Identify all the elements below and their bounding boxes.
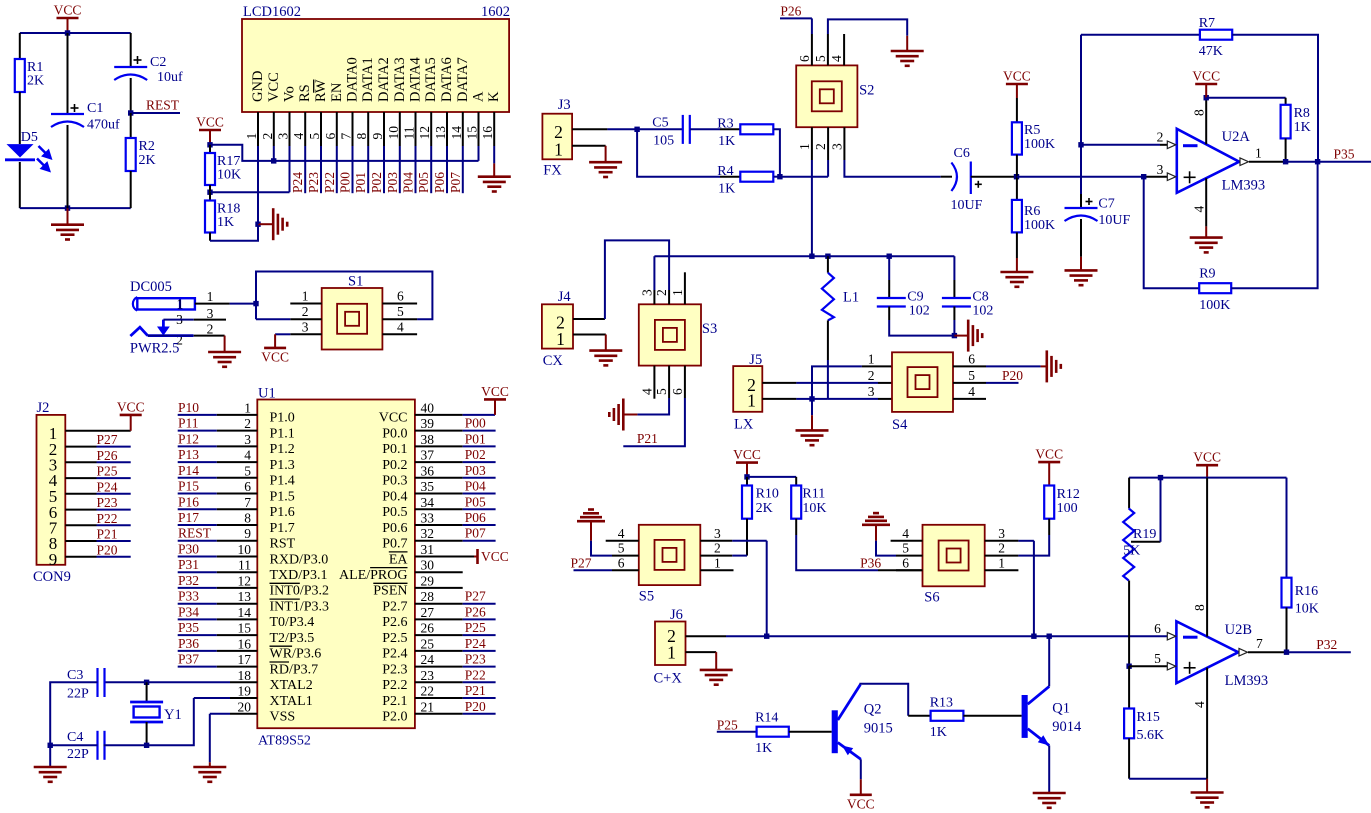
S6 pin 2 wire <box>985 555 1019 557</box>
svg-text:105: 105 <box>653 134 674 149</box>
svg-text:REST: REST <box>146 98 180 113</box>
S3 pin 2 wire <box>668 290 670 304</box>
svg-text:3: 3 <box>868 384 875 399</box>
resistor R8 <box>1285 98 1287 105</box>
svg-text:21: 21 <box>421 699 435 714</box>
svg-text:34: 34 <box>421 495 435 510</box>
U2B pin 8 <box>1206 478 1208 637</box>
ground LCD backlight <box>478 175 511 178</box>
wire main signal to U2A pin3 <box>1017 176 1144 178</box>
svg-text:R19: R19 <box>1133 527 1156 542</box>
U1 pin18 XTAL2 wire <box>230 681 257 683</box>
node C3 C4 left junction <box>48 743 53 748</box>
svg-text:37: 37 <box>421 448 435 463</box>
wire U2B pin5 <box>1129 665 1167 667</box>
wire J3 to R4 <box>637 129 720 176</box>
IC U1 body <box>257 400 415 729</box>
svg-text:VCC: VCC <box>54 3 82 18</box>
node J5 S4 junction <box>809 396 814 401</box>
wire Vo divider to LCD pin3 <box>210 191 290 193</box>
svg-text:6: 6 <box>1154 621 1161 636</box>
svg-text:P0.2: P0.2 <box>382 458 407 473</box>
svg-text:P10: P10 <box>178 400 199 415</box>
svg-text:P2.2: P2.2 <box>382 678 407 693</box>
svg-text:15: 15 <box>238 621 252 636</box>
node VCC R8 rail <box>1204 95 1209 100</box>
ground S6 inverted <box>862 523 890 526</box>
svg-text:INT0/P3.2: INT0/P3.2 <box>270 584 330 599</box>
svg-text:1K: 1K <box>930 725 947 740</box>
power VCC at R17 <box>199 129 221 132</box>
node output feedback <box>1315 159 1320 164</box>
svg-text:P22: P22 <box>322 172 337 193</box>
power rail VCC symbol <box>57 17 79 20</box>
svg-text:5: 5 <box>307 133 322 140</box>
svg-text:3: 3 <box>640 289 655 296</box>
svg-text:8: 8 <box>244 511 251 526</box>
svg-text:8: 8 <box>1192 604 1207 611</box>
node R5 R6 divider <box>1014 174 1019 179</box>
svg-text:2: 2 <box>998 541 1005 556</box>
svg-text:1: 1 <box>556 329 565 349</box>
U1 overlines <box>270 582 300 584</box>
svg-text:P16: P16 <box>178 494 199 509</box>
svg-text:RW: RW <box>313 79 329 102</box>
S2 pin 2 wire <box>827 127 829 160</box>
connector J4 body <box>542 304 573 348</box>
svg-text:470uf: 470uf <box>87 118 120 133</box>
svg-text:8: 8 <box>1192 109 1207 116</box>
svg-text:1K: 1K <box>755 741 772 756</box>
svg-text:47K: 47K <box>1199 44 1223 59</box>
svg-text:5: 5 <box>968 368 975 383</box>
wire R6 top <box>1016 177 1018 200</box>
LCD pin3 wire to Vo divider <box>289 146 291 192</box>
svg-text:1: 1 <box>554 140 563 160</box>
U1 pin 31 EA VCC <box>415 556 474 558</box>
wire junction to S4 pin3 <box>812 398 828 400</box>
wire Q1 collector to bus <box>1048 636 1050 686</box>
svg-text:S5: S5 <box>639 589 654 605</box>
wire R3 right elbow <box>774 129 780 176</box>
svg-text:P07: P07 <box>465 526 486 541</box>
svg-text:P2.3: P2.3 <box>382 662 407 677</box>
svg-text:1: 1 <box>868 352 875 367</box>
svg-text:P20: P20 <box>1002 368 1023 383</box>
power VCC at U1 pin40 <box>484 398 506 401</box>
capacitor C1 <box>51 113 84 115</box>
node Y1 bottom <box>144 743 149 748</box>
wire node to S2 pin2 <box>780 176 828 178</box>
svg-text:R15: R15 <box>1137 710 1160 725</box>
power VCC at J2 pin1 <box>130 415 132 431</box>
svg-text:6: 6 <box>618 555 625 570</box>
wire R18 bottom loop <box>209 233 211 241</box>
LCD pin 8 stub <box>367 112 369 146</box>
svg-text:4: 4 <box>968 384 975 399</box>
svg-text:P30: P30 <box>178 542 199 557</box>
svg-text:LCD1602: LCD1602 <box>243 4 301 20</box>
svg-text:VCC: VCC <box>196 115 224 130</box>
node R8 output <box>1283 159 1288 164</box>
node Y1 top <box>144 680 149 685</box>
svg-text:1: 1 <box>714 555 721 570</box>
svg-text:19: 19 <box>238 684 252 699</box>
svg-text:P0.4: P0.4 <box>382 489 407 504</box>
svg-text:P34: P34 <box>178 604 199 619</box>
connector J2 body <box>37 415 66 565</box>
svg-text:2K: 2K <box>756 501 773 516</box>
svg-text:C1: C1 <box>87 101 103 116</box>
wire R5 bottom <box>1016 155 1018 177</box>
LCD pin 4 wire <box>304 146 306 193</box>
svg-text:R7: R7 <box>1199 16 1215 31</box>
svg-text:J6: J6 <box>670 607 683 623</box>
S5 pin 2 wire <box>700 555 732 557</box>
LCD pin 13 wire <box>446 146 448 193</box>
svg-text:3: 3 <box>302 319 309 334</box>
svg-text:C6: C6 <box>954 146 970 161</box>
svg-text:Vo: Vo <box>282 86 298 102</box>
svg-text:P20: P20 <box>465 699 486 714</box>
svg-text:6: 6 <box>323 133 338 140</box>
power VCC at R10 <box>746 463 748 477</box>
svg-text:1: 1 <box>670 289 685 296</box>
node DC005 junction <box>253 301 258 306</box>
svg-text:4: 4 <box>829 55 844 62</box>
svg-text:P1.7: P1.7 <box>270 521 295 536</box>
svg-text:VCC: VCC <box>1192 69 1220 84</box>
wire R14 to Q2 base <box>789 731 832 733</box>
svg-text:U2B: U2B <box>1225 622 1252 638</box>
switch S5 body <box>639 525 701 585</box>
svg-text:18: 18 <box>238 668 252 683</box>
svg-text:1K: 1K <box>217 215 234 230</box>
svg-text:L1: L1 <box>843 290 859 306</box>
LCD pin 6 stub <box>336 112 338 146</box>
svg-text:PSEN: PSEN <box>373 584 407 599</box>
svg-text:P04: P04 <box>401 172 416 193</box>
svg-text:10uf: 10uf <box>157 70 183 85</box>
svg-text:100K: 100K <box>1024 218 1055 233</box>
svg-text:S3: S3 <box>702 321 717 337</box>
svg-text:C8: C8 <box>972 290 988 305</box>
svg-text:12: 12 <box>417 126 432 140</box>
ground J6 pin1 <box>715 652 717 670</box>
J5 pin 1 wire <box>762 398 796 400</box>
power VCC at U2B <box>1206 465 1208 477</box>
svg-text:4: 4 <box>640 388 655 395</box>
svg-text:R4: R4 <box>717 164 733 179</box>
ground U1 VSS <box>209 762 211 767</box>
LCD pin 5 stub <box>320 112 322 146</box>
node bus L1 <box>825 254 830 259</box>
svg-text:25: 25 <box>421 636 435 651</box>
svg-text:VCC: VCC <box>266 72 282 102</box>
svg-text:1: 1 <box>747 391 756 411</box>
svg-text:C5: C5 <box>652 116 668 131</box>
U1 pin20 VSS wire <box>230 713 257 715</box>
wire C6 to divider <box>971 176 1017 178</box>
svg-text:P37: P37 <box>178 652 199 667</box>
svg-text:4: 4 <box>244 448 251 463</box>
svg-text:2: 2 <box>868 368 875 383</box>
svg-text:2: 2 <box>714 541 721 556</box>
LCD pin 12 wire <box>430 146 432 193</box>
svg-text:P03: P03 <box>385 172 400 193</box>
power VCC at U2A <box>1195 83 1217 86</box>
LED D5 <box>7 144 34 157</box>
S3 pin 3 wire <box>653 290 655 304</box>
svg-text:LX: LX <box>734 417 754 433</box>
svg-text:6: 6 <box>797 55 812 62</box>
S6 pin 1 stub <box>985 569 1019 571</box>
svg-text:31: 31 <box>421 542 435 557</box>
LCD pin 4 stub <box>304 112 306 146</box>
wire bottom rail <box>20 207 131 209</box>
svg-text:7: 7 <box>244 495 251 510</box>
node J3 split <box>634 127 639 132</box>
svg-text:VCC: VCC <box>481 384 509 399</box>
svg-text:R9: R9 <box>1199 267 1215 282</box>
svg-text:P1.4: P1.4 <box>270 474 295 489</box>
resistor R14 <box>757 727 789 737</box>
svg-text:DC005: DC005 <box>130 279 172 295</box>
LCD pin 14 wire <box>462 146 464 193</box>
svg-text:10K: 10K <box>1295 602 1319 617</box>
svg-text:9014: 9014 <box>1052 719 1082 735</box>
resistor R19 rheostat <box>1128 478 1130 509</box>
capacitor C7 <box>1065 207 1098 209</box>
svg-text:REST: REST <box>178 526 212 541</box>
svg-text:C2: C2 <box>150 55 166 70</box>
svg-text:P26: P26 <box>465 604 486 619</box>
node LCD pin2 tap <box>271 158 276 163</box>
svg-text:7: 7 <box>339 133 354 140</box>
S1 pin 3 wire <box>290 333 321 335</box>
S5 pin 1 stub <box>700 569 733 571</box>
svg-text:2: 2 <box>244 416 251 431</box>
svg-text:11: 11 <box>402 127 417 140</box>
svg-text:4: 4 <box>618 526 625 541</box>
J4 pin 2 wire <box>573 318 605 320</box>
svg-text:P00: P00 <box>338 172 353 193</box>
svg-text:P07: P07 <box>448 172 463 193</box>
resistor R1 <box>15 59 25 92</box>
svg-text:P17: P17 <box>178 510 199 525</box>
svg-text:VCC: VCC <box>1035 447 1063 462</box>
svg-text:2K: 2K <box>27 74 44 89</box>
node R19 wiper rail <box>1158 475 1163 480</box>
capacitor C9 <box>888 256 890 280</box>
S6 pin 5 wire <box>896 555 923 557</box>
J5 pin 2 wire <box>762 382 796 384</box>
S1 pin 2 wire <box>290 318 321 320</box>
node VCC rail junction <box>65 30 70 35</box>
capacitor C2 <box>114 66 147 68</box>
svg-text:C+X: C+X <box>654 671 683 687</box>
svg-text:4: 4 <box>1192 206 1207 213</box>
svg-text:C9: C9 <box>907 290 923 305</box>
svg-text:10UF: 10UF <box>1098 213 1130 228</box>
svg-text:P0.5: P0.5 <box>382 505 407 520</box>
ground S5 inverted <box>577 520 605 523</box>
S4 pin 6 wire <box>953 365 986 367</box>
svg-text:P25: P25 <box>717 718 738 733</box>
LCD pin 9 wire <box>383 146 385 193</box>
node U2A pin2 tap <box>1078 142 1083 147</box>
wire junction to S4 pin1 <box>812 366 862 399</box>
resistor R13 <box>931 711 964 721</box>
svg-text:1K: 1K <box>1294 120 1311 135</box>
svg-text:S4: S4 <box>892 417 908 433</box>
svg-text:P21: P21 <box>465 683 486 698</box>
wire output to P35 <box>1286 161 1318 163</box>
wire to C5 <box>637 128 683 130</box>
svg-text:100K: 100K <box>1199 298 1230 313</box>
U2A pin 4 ground <box>1205 178 1207 226</box>
wire R7 left vertical <box>1080 35 1082 145</box>
svg-text:VCC: VCC <box>733 447 761 462</box>
S5 pin 6 wire P27 <box>574 569 613 571</box>
S3 pin 6 wire <box>684 366 686 398</box>
svg-text:5: 5 <box>813 55 828 62</box>
S4 pin 5 wire P20 <box>953 382 986 384</box>
switch S3 body <box>639 304 701 365</box>
wire R2 bottom <box>130 171 132 208</box>
wire C2 to REST node <box>130 78 132 113</box>
svg-text:VCC: VCC <box>847 797 875 812</box>
svg-text:INT1/P3.3: INT1/P3.3 <box>270 600 330 615</box>
svg-text:38: 38 <box>421 432 435 447</box>
switch S4 body <box>892 352 953 412</box>
wire VCC to LCD pin2 and pin15 <box>210 145 479 161</box>
S4 pin 4 stub <box>953 398 986 400</box>
U1 pin 29 stub <box>415 587 463 589</box>
svg-text:U1: U1 <box>258 386 276 402</box>
J4 pin 1 wire <box>573 334 606 336</box>
svg-text:LM393: LM393 <box>1222 178 1266 194</box>
LCD pin 13 stub <box>446 112 448 146</box>
svg-text:10K: 10K <box>802 501 826 516</box>
S2 pin 6 wire <box>811 18 813 34</box>
svg-text:5: 5 <box>397 304 404 319</box>
U2A output pin 1 <box>1240 158 1249 166</box>
svg-text:7: 7 <box>1256 636 1263 651</box>
svg-text:R13: R13 <box>930 696 953 711</box>
power VCC at Q2 emitter <box>860 759 862 779</box>
svg-text:J2: J2 <box>37 400 50 416</box>
svg-text:P24: P24 <box>97 479 118 494</box>
S3 pin 5 wire <box>668 366 670 398</box>
svg-text:P36: P36 <box>178 636 199 651</box>
svg-text:DATA7: DATA7 <box>455 57 471 102</box>
power VCC at R5 <box>1006 83 1028 86</box>
svg-text:32: 32 <box>421 526 435 541</box>
svg-text:P2.7: P2.7 <box>382 600 407 615</box>
S2 pin 5 wire <box>827 34 829 65</box>
svg-text:P23: P23 <box>465 652 486 667</box>
ground DC005 pin2 <box>224 336 226 352</box>
svg-text:4: 4 <box>902 526 909 541</box>
LCD pin 12 stub <box>430 112 432 146</box>
transistor Q1 9014 <box>1022 695 1028 738</box>
capacitor C5 <box>682 115 684 144</box>
svg-text:22P: 22P <box>67 747 89 762</box>
svg-text:P01: P01 <box>353 172 368 193</box>
svg-text:13: 13 <box>433 126 448 140</box>
svg-text:FX: FX <box>543 163 562 179</box>
svg-text:D5: D5 <box>21 130 38 145</box>
S3 pin 4 stub <box>653 366 655 399</box>
svg-text:P35: P35 <box>1334 147 1355 162</box>
svg-text:WR/P3.6: WR/P3.6 <box>270 647 322 662</box>
crystal Y1 <box>146 682 148 702</box>
J3 pin 2 wire <box>572 128 607 130</box>
S6 pin 3 wire <box>985 540 1019 542</box>
svg-text:P04: P04 <box>465 479 486 494</box>
svg-text:DATA2: DATA2 <box>376 57 392 102</box>
svg-text:1: 1 <box>244 400 251 415</box>
svg-text:R14: R14 <box>755 711 778 726</box>
svg-text:J4: J4 <box>558 289 572 305</box>
LCD pin 10 stub <box>399 112 401 146</box>
svg-text:U2A: U2A <box>1222 129 1251 145</box>
resistor R17 <box>209 145 211 153</box>
LCD pin 11 wire <box>415 146 417 193</box>
svg-text:S6: S6 <box>924 590 939 606</box>
svg-text:P2.5: P2.5 <box>382 631 407 646</box>
svg-text:29: 29 <box>421 573 435 588</box>
resistor R11 <box>795 477 797 486</box>
wire C2 stem top <box>130 33 132 67</box>
svg-text:J3: J3 <box>558 97 571 113</box>
S6 pin 4 stub <box>891 540 923 542</box>
svg-text:2: 2 <box>207 322 214 337</box>
switch S1 body <box>322 288 383 350</box>
LCD pin 15 stub <box>478 112 480 146</box>
svg-text:102: 102 <box>909 304 930 319</box>
switch S2 body <box>796 65 857 127</box>
inductor L1 <box>827 256 829 273</box>
node pin3 feedback tap <box>1141 174 1146 179</box>
svg-text:P32: P32 <box>1316 637 1337 652</box>
svg-text:1: 1 <box>667 643 676 663</box>
wire Q2 collector <box>860 684 908 716</box>
LCD pin1 wire to ground tap <box>257 146 259 224</box>
U2A pin 8 <box>1205 98 1207 145</box>
svg-text:1: 1 <box>797 143 812 150</box>
svg-text:16: 16 <box>238 636 252 651</box>
LCD pin 8 wire <box>367 146 369 193</box>
wire to R13 <box>908 715 930 717</box>
svg-text:5: 5 <box>1154 651 1161 666</box>
ground S4 pin6 sideways <box>1041 365 1047 367</box>
svg-text:S1: S1 <box>348 274 363 290</box>
svg-text:P25: P25 <box>97 464 118 479</box>
svg-text:R5: R5 <box>1024 123 1040 138</box>
transistor Q2 9015 <box>832 710 838 753</box>
wire vcc to R11 <box>747 476 796 478</box>
svg-text:8: 8 <box>354 133 369 140</box>
resistor R16 <box>1286 478 1288 578</box>
svg-text:P2.6: P2.6 <box>382 615 407 630</box>
svg-text:P02: P02 <box>369 172 384 193</box>
svg-text:9: 9 <box>244 526 251 541</box>
svg-text:P22: P22 <box>97 511 118 526</box>
svg-text:P1.5: P1.5 <box>270 489 295 504</box>
svg-text:P02: P02 <box>465 447 486 462</box>
